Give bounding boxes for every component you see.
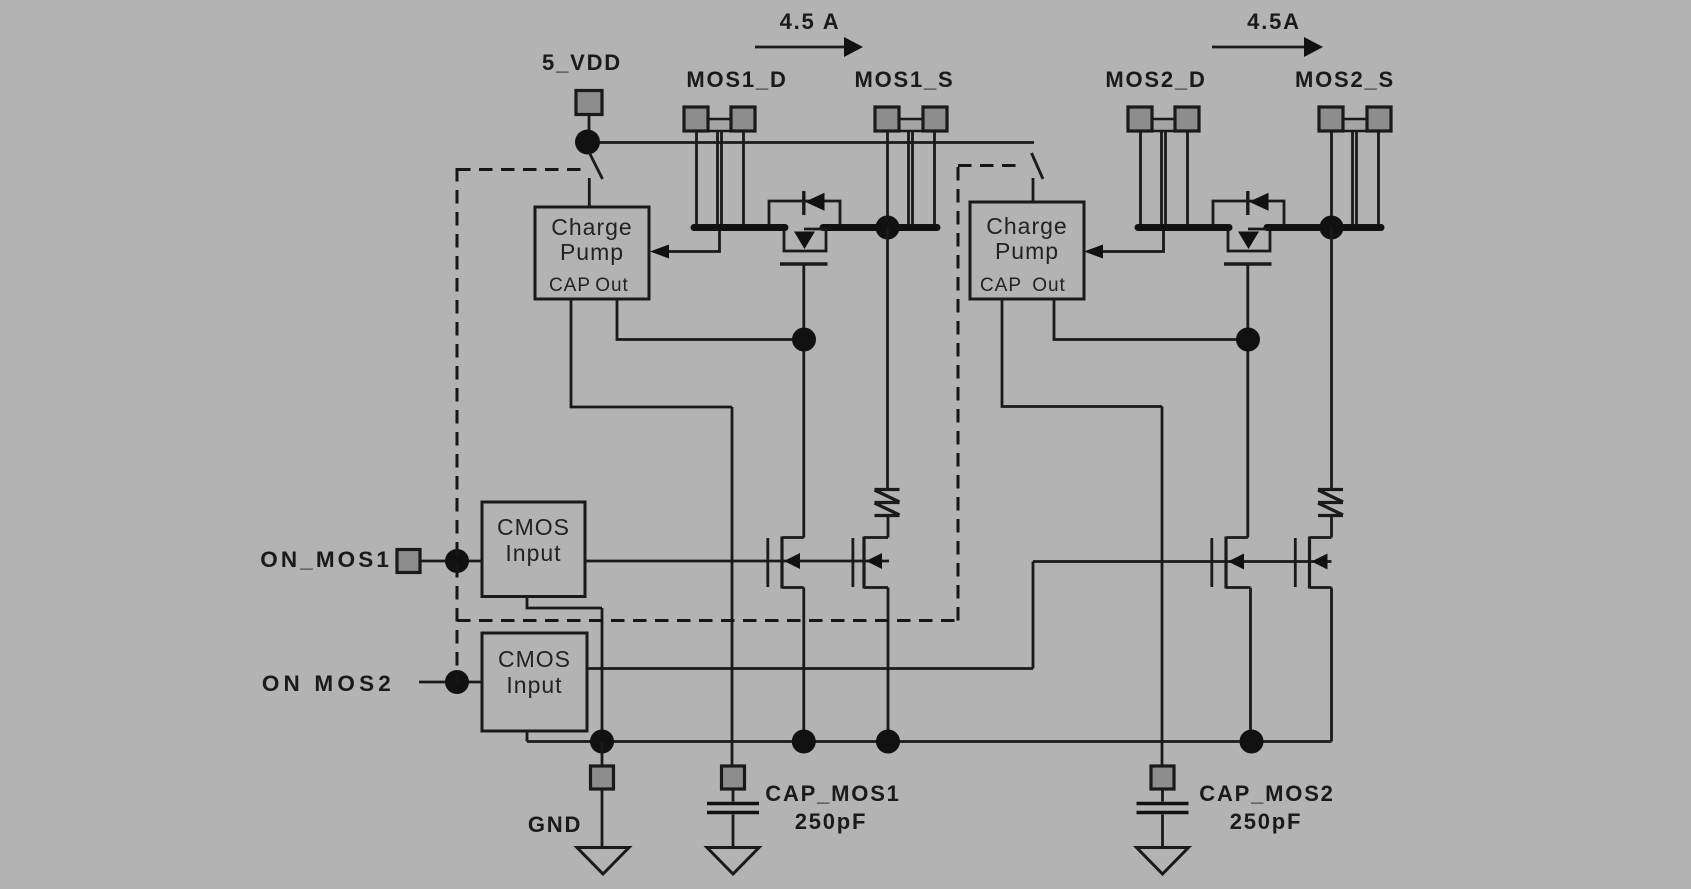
svg-text:CMOS: CMOS — [498, 646, 571, 672]
charge pump U1 text — [549, 214, 633, 296]
svg-text:5_VDD: 5_VDD — [542, 50, 622, 75]
node M1 source — [792, 730, 816, 754]
wires MOS2_D legs — [1141, 131, 1188, 228]
svg-text:ON_MOS1: ON_MOS1 — [260, 547, 392, 572]
power MOSFET Q1 gate bar — [780, 262, 828, 265]
power MOSFET Q1 drain bus — [694, 224, 785, 231]
capacitor C1 — [707, 789, 759, 848]
svg-text:Charge: Charge — [986, 213, 1067, 239]
dashed control ON_MOS2 horizontal — [457, 619, 958, 622]
node M3 source — [1240, 730, 1264, 754]
svg-text:CAP: CAP — [549, 275, 591, 296]
node 5_VDD — [575, 130, 600, 155]
ground symbol GND — [577, 848, 629, 875]
svg-text:Pump: Pump — [560, 239, 624, 265]
node M2 source — [876, 730, 900, 754]
svg-text:MOS2_D: MOS2_D — [1105, 67, 1206, 92]
wire GND stem — [601, 742, 604, 849]
wire M2 source down — [887, 588, 890, 742]
capacitor C2 — [1137, 789, 1189, 848]
resistor R1 — [875, 228, 900, 538]
pin pads MOS1_S — [875, 107, 947, 131]
body diode D1 triangle — [805, 193, 825, 211]
svg-text:GND: GND — [528, 812, 582, 837]
wire M3 source down — [1249, 588, 1252, 742]
svg-text:MOS2_S: MOS2_S — [1295, 67, 1395, 92]
ground symbol C1 — [707, 848, 759, 875]
transistor M3 — [1212, 537, 1251, 589]
pin pads MOS1_D — [684, 107, 755, 131]
charge pump U2 text — [980, 213, 1068, 296]
CMOS input U4 text — [498, 646, 571, 698]
pin pad ON_MOS1 — [397, 550, 420, 573]
transistor M1 — [768, 537, 804, 589]
wire U4 output stub — [526, 731, 529, 742]
wire ON_MOS2 to CMOS2 — [419, 681, 482, 684]
svg-text:Out: Out — [595, 275, 629, 296]
svg-text:CAP_MOS2: CAP_MOS2 — [1199, 781, 1334, 806]
charge pump U1 box — [535, 207, 649, 299]
svg-text:250pF: 250pF — [1230, 809, 1303, 834]
body diode D1 loop — [769, 201, 840, 224]
wire drain sense to U1 with arrow — [668, 231, 720, 252]
dashed control ON_MOS2 to SW2 — [958, 164, 1020, 167]
wire ground bus — [527, 740, 1332, 743]
wire 5_VDD pad to node — [588, 114, 591, 142]
svg-text:250pF: 250pF — [795, 809, 868, 834]
current arrow right — [1212, 46, 1305, 49]
power MOSFET Q2 gate bar — [1224, 262, 1272, 265]
dashed control ON_MOS2 vertical — [957, 166, 960, 621]
power MOSFET Q2 gate lead — [1246, 266, 1249, 538]
svg-text:MOS1_S: MOS1_S — [854, 67, 954, 92]
pin pad 5_VDD — [576, 91, 602, 115]
pin pad CAP_MOS2 — [1151, 766, 1174, 789]
ground symbol C2 — [1137, 848, 1189, 875]
node GND — [590, 730, 614, 754]
wire U1 Out to gate node — [617, 299, 804, 340]
wire M1 source down — [802, 588, 805, 742]
wire U2 CAP output — [1002, 299, 1162, 766]
wire 5_VDD rail — [588, 141, 1034, 144]
wires MOS2_S legs — [1332, 131, 1379, 228]
wire U2 Out to gate node — [1054, 299, 1248, 340]
wire U3 output stub — [527, 597, 602, 742]
switch SW1 blade — [590, 153, 603, 179]
wires MOS1_D legs — [697, 131, 744, 228]
switch SW2 blade — [1032, 153, 1044, 179]
node MOS2_S bus — [1320, 216, 1344, 240]
wires MOS1_S legs — [888, 131, 935, 228]
CMOS input U3 text — [497, 514, 570, 566]
power MOSFET Q1 source bus — [823, 224, 937, 231]
wire SW2 to charge pump 2 — [1032, 178, 1035, 202]
CMOS input U4 box — [482, 633, 587, 731]
CMOS input U3 box — [482, 502, 585, 597]
transistor M2 — [853, 537, 888, 589]
wire U1 CAP output — [571, 299, 732, 766]
svg-text:CAP: CAP — [980, 275, 1022, 296]
node ON_MOS1 — [445, 549, 469, 573]
transistor M4 — [1295, 537, 1331, 589]
svg-text:MOS1_D: MOS1_D — [686, 67, 787, 92]
node MOS1_S bus — [876, 216, 900, 240]
node gate2 — [1236, 328, 1260, 352]
svg-text:4.5 A: 4.5 A — [780, 9, 841, 34]
dashed control ON_MOS1 horizontal to SW1 — [457, 168, 581, 171]
body diode D2 loop — [1213, 201, 1284, 224]
power MOSFET Q2 drain bus — [1138, 224, 1229, 231]
charge pump U2 box — [970, 202, 1084, 299]
wire gate line CMOS1 to M1 M2 — [585, 560, 889, 563]
body diode D2 triangle — [1249, 193, 1269, 211]
node ON_MOS2 — [445, 670, 469, 694]
resistor R2 — [1318, 228, 1343, 538]
wire SW1 to charge pump 1 — [588, 178, 591, 207]
svg-text:4.5A: 4.5A — [1247, 9, 1301, 34]
power MOSFET Q2 channel dip — [1228, 230, 1270, 251]
dashed control ON_MOS1 vertical — [456, 168, 459, 682]
node gate1 — [792, 328, 816, 352]
svg-text:Input: Input — [506, 672, 562, 698]
power MOSFET Q1 channel dip — [784, 230, 826, 251]
svg-text:Charge: Charge — [551, 214, 632, 240]
pin pads MOS2_D — [1128, 107, 1199, 131]
svg-text:Out: Out — [1032, 275, 1066, 296]
wire ON_MOS1 to CMOS1 — [420, 560, 482, 563]
wire gate line CMOS2 to M3 M4 — [587, 562, 1332, 669]
svg-text:CMOS: CMOS — [497, 514, 570, 540]
wire M4 source down to bus corner — [1330, 588, 1333, 742]
current arrow left — [755, 46, 845, 49]
svg-text:ON MOS2: ON MOS2 — [262, 671, 395, 696]
power MOSFET Q1 gate lead — [802, 266, 805, 538]
svg-text:Pump: Pump — [995, 238, 1059, 264]
svg-text:Input: Input — [505, 540, 561, 566]
pin pads MOS2_S — [1319, 107, 1391, 131]
power MOSFET Q2 source arrow — [1248, 228, 1270, 231]
body diode D1 bar — [802, 191, 805, 215]
body diode D2 bar — [1246, 191, 1249, 215]
power MOSFET Q1 source arrow — [804, 228, 826, 231]
pin pad CAP_MOS1 — [722, 766, 745, 789]
svg-text:CAP_MOS1: CAP_MOS1 — [765, 781, 900, 806]
wire drain sense to U2 with arrow — [1102, 231, 1164, 252]
power MOSFET Q2 source bus — [1267, 224, 1381, 231]
pin pad GND — [591, 766, 614, 789]
